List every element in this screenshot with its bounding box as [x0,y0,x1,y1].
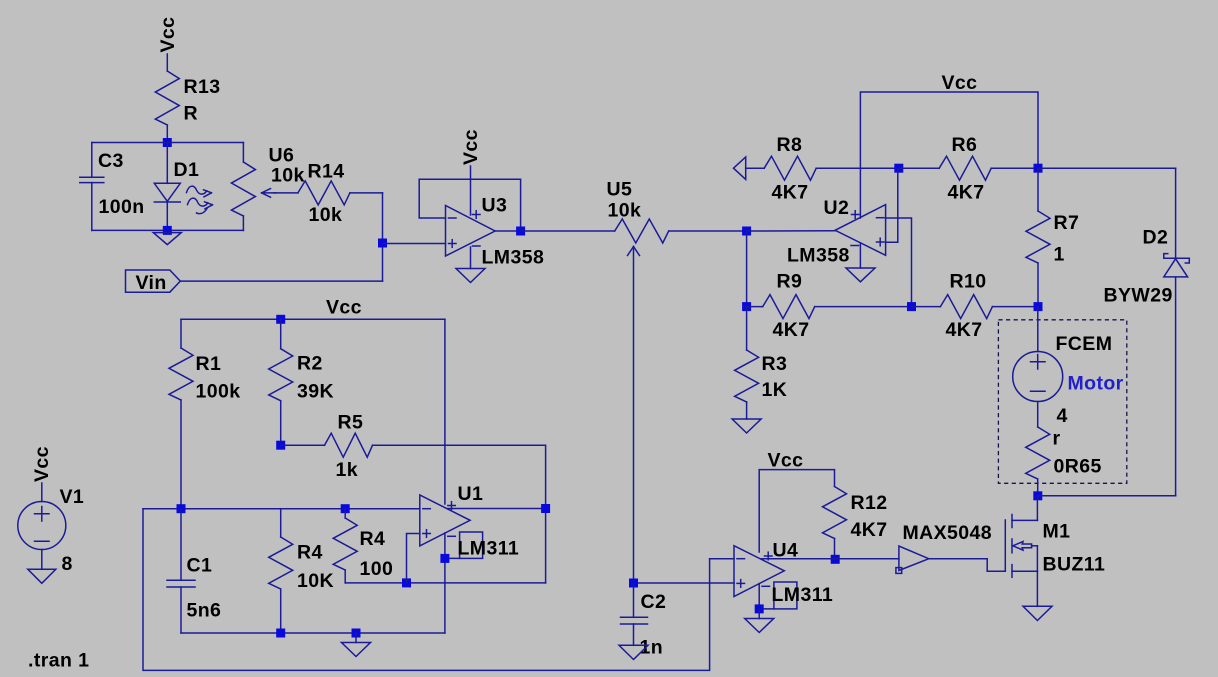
wire U3 output [495,230,520,232]
wire Vcc rail U1 block [181,318,445,320]
svg-text:U5: U5 [607,179,633,201]
wire U2 V- pin [859,243,861,268]
wire MAX5048 output [929,558,987,560]
node R2/R5 junction [276,441,285,450]
resistor R2 [269,319,334,445]
svg-text:LM358: LM358 [787,245,850,267]
svg-text:U1: U1 [458,483,484,505]
wire U3 out to U5 [521,230,615,232]
wire U2 minus input to R9/R10 node [886,218,912,307]
svg-text:R1: R1 [196,353,222,375]
wire motor top [1037,307,1039,352]
nmos M1 BUZ11 [1005,496,1105,578]
arrow flag at R8 left [734,157,746,179]
wire R8 to R6 [816,167,899,169]
ground under U2 [846,268,875,282]
resistor R6 [899,134,1038,204]
svg-text:4K7: 4K7 [946,319,983,341]
resistor R4 100 [333,509,393,583]
node U1 output junction [541,504,550,513]
ground under C2 [619,645,648,659]
wire U1 output [448,508,546,510]
resistor R10 [912,271,1038,342]
svg-text:100: 100 [360,558,394,580]
wire U1 V- down [444,533,446,633]
svg-text:1: 1 [1054,244,1065,266]
wire wiper to R14 [274,192,298,194]
svg-text:Vcc: Vcc [460,129,482,165]
wire U3 V+ pin [470,166,472,215]
svg-text:U2: U2 [824,197,850,219]
node R1/C1 junction [177,504,186,513]
node R6/R7/Vcc junction [1034,164,1043,173]
svg-text:R7: R7 [1054,212,1080,234]
svg-text:R13: R13 [184,76,221,98]
node C2 junction [629,579,638,588]
voltage source FCEM (motor) [1013,333,1113,427]
wire mid rail (U1 minus node) [143,508,420,510]
wire output column down [545,509,547,583]
svg-text:U6: U6 [269,145,295,167]
comparator U1 LM311 [420,483,519,560]
svg-text:4K7: 4K7 [772,182,809,204]
svg-text:Vcc: Vcc [326,297,362,319]
wire R5 right to output column [373,445,546,508]
resistor R12 [823,487,888,560]
svg-text:Vin: Vin [136,272,167,294]
svg-text:FCEM: FCEM [1056,333,1113,355]
net label Vcc (vertical, above R13) [157,17,179,53]
node U1 plus drop junction [402,578,411,587]
wire Vcc jog U4/R12 [759,470,834,552]
svg-text:BUZ11: BUZ11 [1043,554,1106,576]
svg-text:4K7: 4K7 [948,182,985,204]
LED light arrow 2 [188,198,213,213]
node ground junction [352,629,361,638]
wire V1 bottom [41,550,43,570]
voltage source V1 [18,486,84,575]
node drain junction [1033,491,1042,500]
port flag Vin [126,270,181,294]
ground under U4 [745,609,774,633]
net label Vcc (vertical, above V1) [31,446,53,482]
wire top rail C3-D1-U6 [92,142,244,144]
node R12/U4out junction [831,555,840,564]
diode D1 (LED) [154,143,199,231]
potentiometer U5 wiper arrow [628,247,640,256]
svg-text:MAX5048: MAX5048 [903,522,993,544]
svg-text:R8: R8 [777,134,803,156]
node U4 V- junction [755,604,764,613]
wire U5 wiper down to C2 node [633,247,635,584]
svg-text:Vcc: Vcc [942,72,978,94]
potentiometer U5 [607,179,669,244]
svg-text:1K: 1K [762,379,788,401]
resistor R7 [1026,168,1079,306]
wire Vin row [180,280,382,282]
ground under U1 block [342,633,371,657]
node R4a bottom junction [276,629,285,638]
resistor r 0R65 [1026,427,1102,496]
svg-text:R2: R2 [297,353,323,375]
wire down to R9 [746,231,748,307]
wire R14 right [350,192,383,194]
wire U5 right to U2 out [669,230,747,232]
svg-text:U3: U3 [482,195,508,217]
wire motor mid [1037,402,1039,428]
svg-text:10k: 10k [271,165,305,187]
ground under R3 [732,419,761,433]
node R10/R7/motor junction [1034,302,1043,311]
svg-text:D1: D1 [174,159,200,181]
wire U2 plus input to R8/R6 node [886,168,898,242]
wire U4 minus input [710,558,734,560]
resistor R14 [298,161,350,227]
svg-text:R14: R14 [308,161,345,183]
comparator U4 LM311 [734,540,833,609]
ground under V1 [28,569,56,583]
wire R4b bottom row [345,582,545,584]
net label Vcc (above U1 block) [326,297,362,319]
wire U3 V- pin [470,247,472,269]
wire U1 block bottom rail [181,632,445,634]
wire U1 V+ pin [444,319,446,504]
capacitor C3 [80,143,145,231]
ground under M1 [1023,606,1052,620]
svg-text:R6: R6 [952,134,978,156]
svg-text:Vcc: Vcc [157,17,179,53]
svg-text:LM358: LM358 [482,247,545,269]
net label Vcc (above U4) [768,450,804,472]
op-amp U2 LM358 (mirrored) [787,197,886,267]
wire drain row to D2 [1038,495,1176,497]
wire R13 bottom [166,125,168,143]
svg-text:4: 4 [1057,405,1068,427]
svg-text:100k: 100k [196,381,241,403]
wire V1 top [41,483,43,502]
potentiometer U6 [231,143,304,231]
svg-text:Vcc: Vcc [31,446,53,482]
wire U3 feedback loop [419,179,520,231]
svg-text:Motor: Motor [1068,373,1124,395]
svg-text:R4: R4 [297,542,323,564]
svg-text:R12: R12 [851,492,888,514]
svg-text:1k: 1k [336,459,359,481]
svg-text:0R65: 0R65 [1054,456,1102,478]
net label Vcc (vertical, above U3) [460,129,482,165]
node U3 output junction [516,227,525,236]
svg-text:C1: C1 [187,555,213,577]
wire U4 plus input from C2 node [634,582,735,584]
svg-text:C2: C2 [641,591,667,613]
wire R6 row to D2 [1038,167,1176,169]
resistor R4 10K [269,509,334,633]
wire to U3 plus input [383,243,446,245]
wire feedback loop U4- to mid rail [143,509,710,671]
resistor R5 [281,412,373,482]
wire U4 output row [761,558,899,560]
node bottom rail junction [163,226,172,235]
wire U2 output [747,230,836,232]
svg-text:LM311: LM311 [772,584,834,606]
resistor R3 [735,307,788,419]
op-amp U3 LM358 [446,195,545,269]
svg-text:39K: 39K [297,381,334,403]
node U1 V- junction [440,554,449,563]
svg-text:8: 8 [62,553,73,575]
net label Vcc (above U2) [942,72,978,94]
resistor R1 [169,319,240,508]
svg-text:100n: 100n [99,196,145,218]
buffer MAX5048 [896,522,992,573]
ground under D1 [153,233,181,245]
svg-text:Vcc: Vcc [768,450,804,472]
capacitor C1 [167,509,221,633]
resistor R8 [764,134,816,204]
wire R9 to R10 [815,306,912,308]
svg-text:4K7: 4K7 [773,319,810,341]
svg-text:R4: R4 [360,528,386,550]
svg-text:5n6: 5n6 [187,600,222,622]
wire Vcc rail U2 [860,92,1038,218]
svg-text:D2: D2 [1143,227,1169,249]
wire bottom rail C3-D1-U6 [92,229,244,231]
svg-text:LM311: LM311 [458,538,520,560]
ground under U3 [456,269,485,283]
svg-text:.tran 1: .tran 1 [28,650,89,672]
node R2 top junction [276,315,285,324]
svg-text:R10: R10 [950,271,987,293]
svg-text:R3: R3 [762,353,788,375]
svg-text:R5: R5 [338,412,364,434]
svg-text:1n: 1n [640,637,664,659]
diode D2 BYW29 (schottky) [1104,168,1190,496]
wire R14 corner down to Vin row [382,193,384,281]
svg-text:r: r [1053,428,1061,450]
svg-text:M1: M1 [1043,521,1071,543]
potentiometer U6 wiper arrow [262,189,277,198]
LED light arrow 1 [187,186,212,197]
node R9/R10/U2- junction [907,302,916,311]
node R9 left junction [742,302,751,311]
svg-text:10k: 10k [608,200,642,222]
resistor R9 [747,271,815,342]
wire M1 source down [1036,571,1038,606]
node R4b top junction [341,504,350,513]
svg-text:C3: C3 [98,150,124,172]
wire R8 left [746,167,765,169]
svg-text:4K7: 4K7 [851,519,888,541]
wire M1 gate lead [987,559,1005,572]
node R8/R6/U2+ junction [894,164,903,173]
svg-text:10K: 10K [297,570,334,592]
node R14/Vin/U3 junction [378,239,387,248]
capacitor C2 [621,583,667,659]
svg-text:BYW29: BYW29 [1104,285,1173,307]
svg-text:V1: V1 [60,486,85,508]
node top rail junction [163,138,172,147]
svg-text:R9: R9 [777,271,803,293]
resistor R13 [155,71,220,125]
svg-text:10k: 10k [309,204,343,226]
wire Vcc to R13 [166,54,168,71]
wire U1 plus input drop [407,534,420,583]
motor dashed box [998,320,1126,484]
svg-text:R: R [184,103,198,125]
node U5/U2out junction [742,227,751,236]
